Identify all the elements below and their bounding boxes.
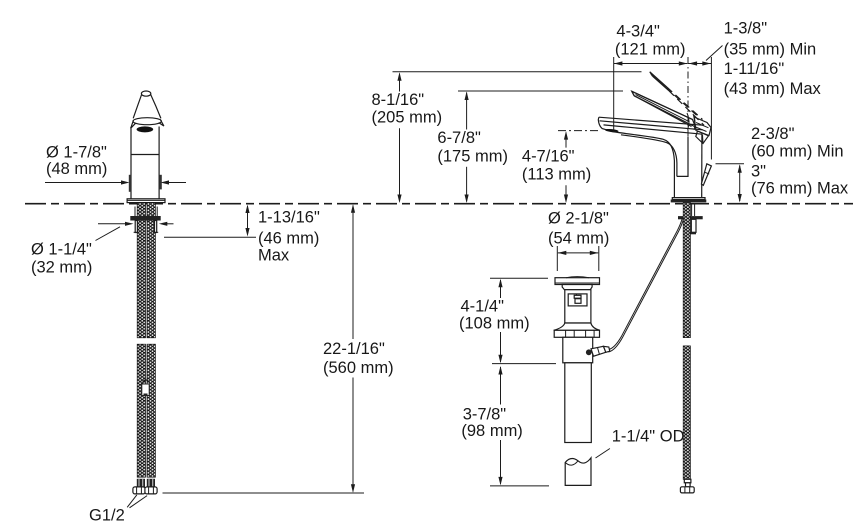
svg-text:(205 mm): (205 mm)	[372, 109, 443, 127]
right faucet mid lever (solid)	[632, 91, 696, 127]
right hose upper segment	[683, 203, 690, 338]
G1/2 leader lines	[127, 495, 147, 508]
svg-text:(48 mm): (48 mm)	[46, 160, 107, 178]
svg-text:(54 mm): (54 mm)	[548, 229, 609, 247]
svg-text:1-11/16": 1-11/16"	[724, 60, 785, 78]
right faucet lever knuckle	[687, 113, 711, 144]
svg-text:(43 mm) Max: (43 mm) Max	[724, 80, 822, 98]
left hex nuts G1/2	[133, 487, 157, 494]
right bracket leg	[689, 219, 697, 234]
label 1-1/4" OD	[596, 428, 685, 458]
left faucet handle cone	[133, 91, 161, 118]
svg-text:2-3/8": 2-3/8"	[751, 125, 795, 143]
svg-text:(60 mm) Min: (60 mm) Min	[751, 142, 844, 160]
svg-text:3": 3"	[751, 162, 766, 180]
drain body	[565, 290, 591, 323]
svg-text:G1/2: G1/2	[89, 507, 125, 525]
left mounting bracket legs	[134, 221, 159, 233]
left hose inline connector	[142, 380, 150, 396]
right hose lower segment	[683, 346, 690, 479]
dimension 4-7/16" (113 mm)	[522, 131, 598, 203]
faucet centerline (dash-dot)	[687, 57, 689, 148]
svg-text:(46 mm): (46 mm)	[258, 229, 319, 247]
left faucet right ear	[159, 119, 164, 126]
right faucet body outline	[612, 132, 702, 198]
deck counter line (dashed)	[25, 203, 853, 205]
dimension Ø 1-1/4" (32 mm)	[31, 222, 174, 277]
svg-text:1-13/16": 1-13/16"	[258, 209, 320, 227]
svg-text:4-7/16": 4-7/16"	[522, 147, 575, 165]
svg-text:(113 mm): (113 mm)	[522, 166, 591, 184]
right faucet side lever	[701, 164, 711, 186]
right hose end fitting	[680, 479, 694, 493]
drain upper tube	[563, 337, 593, 363]
svg-text:(98 mm): (98 mm)	[461, 422, 522, 440]
left faucet pivot ring	[133, 118, 161, 125]
left hose pair upper segment	[137, 203, 155, 338]
left hose end fittings	[137, 479, 155, 487]
dimension 2-3/8" min 3" max	[716, 125, 849, 203]
dimension 3-7/8" (98 mm)	[461, 366, 549, 486]
dimension 22-1/16" (560 mm)	[323, 204, 394, 492]
left faucet base flange	[127, 199, 165, 203]
svg-text:(175 mm): (175 mm)	[437, 147, 508, 165]
right mounting nut	[678, 216, 703, 219]
svg-text:(560 mm): (560 mm)	[323, 359, 394, 377]
svg-text:4-1/4": 4-1/4"	[461, 298, 505, 316]
dimension 1-13/16" (46 mm) Max	[164, 205, 320, 265]
left faucet side tabs	[129, 175, 131, 192]
svg-text:22-1/16": 22-1/16"	[323, 340, 385, 358]
svg-text:(32 mm): (32 mm)	[31, 258, 92, 276]
dimension Ø 1-7/8" (48 mm)	[45, 144, 186, 185]
left mounting nut	[130, 216, 160, 221]
right faucet base flange	[671, 198, 707, 203]
left faucet left ear	[131, 120, 136, 128]
svg-text:3-7/8": 3-7/8"	[463, 405, 507, 423]
svg-text:(108 mm): (108 mm)	[459, 315, 530, 333]
bottom reference line	[163, 492, 365, 494]
drain lift cable	[608, 219, 684, 353]
left shank edges	[135, 207, 157, 217]
right faucet spout top band	[598, 117, 702, 134]
left faucet spout opening (dark)	[137, 126, 154, 132]
right faucet aerator (dark)	[605, 128, 619, 132]
svg-text:(35 mm) Min: (35 mm) Min	[724, 40, 817, 58]
dimension 6-7/8" (175 mm)	[437, 91, 623, 203]
left hose pair lower segment	[137, 344, 155, 477]
svg-text:1-1/4" OD: 1-1/4" OD	[612, 428, 685, 446]
drain neck	[562, 285, 592, 290]
drain trumpet flare	[554, 323, 600, 330]
svg-text:Ø 1-1/4": Ø 1-1/4"	[31, 241, 92, 259]
svg-text:1-3/8": 1-3/8"	[724, 20, 768, 38]
dimension 1-3/8" min 1-11/16" max	[688, 20, 821, 160]
dimension 8-1/16" (205 mm)	[372, 72, 642, 203]
svg-text:(121 mm): (121 mm)	[615, 40, 686, 58]
svg-text:6-7/8": 6-7/8"	[437, 129, 481, 147]
dimension Ø 2-1/8" (54 mm)	[548, 210, 609, 271]
drain broken tube piece	[565, 458, 591, 486]
dimension 4-3/4" (121 mm)	[614, 23, 688, 131]
svg-text:Ø 1-7/8": Ø 1-7/8"	[46, 144, 107, 162]
right threaded shank	[692, 204, 695, 217]
left faucet body	[131, 127, 159, 199]
svg-text:8-1/16": 8-1/16"	[372, 91, 425, 109]
drain flange	[555, 277, 600, 285]
svg-text:Max: Max	[258, 246, 290, 264]
svg-text:Ø 2-1/8": Ø 2-1/8"	[548, 210, 609, 228]
dimension 4-1/4" (108 mm)	[459, 278, 556, 363]
drain tailpiece tube	[565, 363, 592, 443]
right faucet raised lever (dashed)	[650, 72, 704, 126]
svg-text:4-3/4": 4-3/4"	[616, 23, 660, 41]
drain hex nut	[554, 330, 599, 337]
svg-text:(76 mm) Max: (76 mm) Max	[751, 180, 849, 198]
drain elbow fitting	[586, 346, 610, 356]
